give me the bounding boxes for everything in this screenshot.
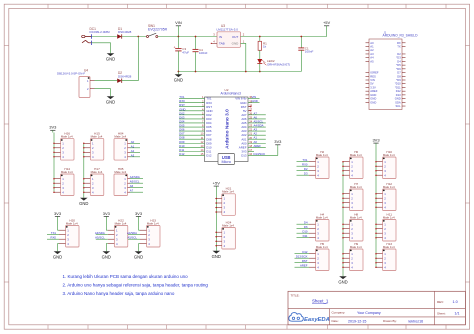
wire U2 left pin 14 (179, 150, 205, 152)
header H16 (54, 131, 74, 160)
power flag 3V3 at H22 (103, 211, 111, 230)
junction H16 pin (53, 156, 55, 158)
svg-text:Company:: Company: (332, 311, 346, 315)
svg-text:A6: A6 (130, 184, 134, 188)
junction U3 gnd (245, 71, 247, 73)
junction H21 pin (216, 198, 218, 200)
svg-text:D13: D13 (396, 93, 401, 97)
svg-text:A1: A1 (131, 144, 135, 148)
svg-text:Male 1x4: Male 1x4 (115, 221, 127, 225)
header H05 (114, 167, 130, 196)
wire U2 pin 18 (248, 146, 266, 148)
svg-text:Male 1x4: Male 1x4 (61, 135, 73, 139)
svg-text:100nF: 100nF (199, 51, 208, 55)
svg-text:GND: GND (102, 254, 111, 259)
svg-text:AREF: AREF (300, 264, 308, 268)
junction H11 pin (375, 232, 377, 234)
svg-text:Male 1x4: Male 1x4 (316, 153, 328, 157)
svg-text:Male 1x4: Male 1x4 (114, 135, 126, 139)
wire A4/SDA to H23 pin2 (128, 234, 140, 236)
junction H12 pin (375, 202, 377, 204)
header H21 (215, 187, 235, 216)
wire D13/SCK to H5 pin 2 (295, 257, 310, 259)
diode D2 (117, 79, 122, 83)
svg-text:Male 1x4: Male 1x4 (383, 245, 395, 249)
junction H12 pin (375, 193, 377, 195)
wire U2 left pin 15 (179, 154, 205, 156)
wire ground rail (178, 71, 301, 73)
wire H05 pin 4 (130, 191, 143, 193)
svg-text:Male 1x4: Male 1x4 (91, 170, 103, 174)
svg-text:A1: A1 (370, 45, 374, 49)
wire U2 left pin 3 (179, 106, 205, 108)
svg-text:A3: A3 (370, 52, 374, 56)
header H11 (376, 212, 396, 241)
svg-text:ORH-R36A(S-ET): ORH-R36A(S-ET) (267, 63, 290, 67)
svg-text:RX: RX (397, 41, 401, 45)
svg-text:D13/SCK: D13/SCK (296, 255, 308, 259)
junction H24 pin (216, 245, 218, 247)
power flag 3V3 at H20 (54, 211, 62, 230)
junction H7 pin (342, 202, 344, 204)
svg-text:IOREF: IOREF (370, 71, 379, 75)
wire U4 to D2 (95, 80, 118, 82)
junction H14 pin (53, 178, 55, 180)
svg-text:3V3: 3V3 (135, 211, 143, 216)
svg-text:A0: A0 (370, 41, 374, 45)
svg-text:Arduino Nano 3.0: Arduino Nano 3.0 (225, 109, 231, 149)
junction H9 pin (342, 266, 344, 268)
junction H16 pin (53, 152, 55, 154)
svg-text:IN: IN (219, 35, 222, 39)
power flag +5V at H21 (213, 181, 221, 199)
svg-text:100nF: 100nF (305, 50, 314, 54)
svg-text:*D11: *D11 (395, 85, 401, 89)
junction H15 pin (83, 156, 85, 158)
wire U2 pin 25 (248, 118, 266, 120)
junction H10 pin (375, 174, 377, 176)
header H8 (343, 212, 363, 241)
svg-text:2019-12-15: 2019-12-15 (348, 320, 366, 324)
svg-text:D3: D3 (304, 172, 308, 176)
junction H13 pin (375, 253, 377, 255)
wire D12 to H5 pin 1 (295, 253, 310, 255)
svg-text:Male 1x4: Male 1x4 (66, 221, 78, 225)
svg-text:D8: D8 (397, 74, 401, 78)
wire D3 to H2 pin 4 (297, 174, 310, 176)
svg-text:3V3: 3V3 (372, 138, 380, 143)
svg-text:Male 1x4: Male 1x4 (316, 245, 328, 249)
diode D1 (117, 34, 122, 38)
junction H9 pin (342, 262, 344, 264)
wire +5V to R1 (259, 37, 261, 42)
svg-text:D13: D13 (241, 154, 247, 158)
svg-text:D2: D2 (397, 52, 401, 56)
junction H16 pin (53, 147, 55, 149)
power flag 3V3 left group (49, 125, 57, 133)
svg-text:A2: A2 (370, 48, 374, 52)
svg-text:Male 1x4: Male 1x4 (350, 215, 362, 219)
svg-text:D7: D7 (397, 71, 401, 75)
svg-text:3V3: 3V3 (103, 211, 111, 216)
junction H10 pin (375, 165, 377, 167)
svg-text:lektroz16: lektroz16 (409, 320, 424, 324)
wire U2 left pin 10 (179, 134, 205, 136)
header H4 (309, 212, 329, 241)
svg-text:Micro: Micro (221, 159, 231, 164)
svg-text:3V3: 3V3 (54, 211, 62, 216)
junction H24 pin (216, 240, 218, 242)
svg-text:1/1: 1/1 (455, 312, 460, 316)
mcu module U2 Arduino Nano 3.0 (201, 95, 253, 161)
junction H15 pin (83, 143, 85, 145)
header H04 (114, 131, 130, 160)
ground at DC1 (106, 51, 115, 62)
svg-text:Male 1x4: Male 1x4 (383, 215, 395, 219)
junction H7 pin (342, 206, 344, 208)
wire U2 pin 26 (248, 114, 266, 116)
capacitor C3 (174, 37, 182, 72)
wire U2 left pin 7 (179, 122, 205, 124)
junction H11 pin (375, 228, 377, 230)
svg-text:A4: A4 (370, 56, 374, 60)
junction H24 pin (216, 236, 218, 238)
svg-text:Male 1x4: Male 1x4 (383, 185, 395, 189)
svg-text:GND: GND (370, 100, 376, 104)
wire U2 left pin 11 (179, 138, 205, 140)
wire RX0 to H2 pin 2 (297, 165, 310, 167)
svg-text:Sheet:: Sheet: (437, 312, 446, 316)
wire U2 left pin 6 (179, 118, 205, 120)
wire D4 to H4 pin 1 (297, 223, 310, 225)
junction H15 pin (83, 152, 85, 154)
svg-text:Male 1x4: Male 1x4 (222, 190, 234, 194)
frame row tick marks (4, 46, 469, 283)
wire U2 left pin 4 (179, 110, 205, 112)
svg-text:DSK4R28: DSK4R28 (118, 74, 132, 78)
svg-text:A4/SDA: A4/SDA (127, 231, 137, 235)
wire 3V3 to H20 pin1 (58, 229, 60, 231)
ground at H20 (53, 249, 62, 260)
svg-text:D11: D11 (303, 234, 308, 238)
header H22 (108, 218, 128, 247)
wire U2 pin 22 (248, 130, 266, 132)
svg-text:Male 1x4: Male 1x4 (114, 170, 126, 174)
svg-text:GND: GND (232, 42, 240, 46)
header H10 (376, 150, 396, 179)
wire U2 pin 30 VIN (248, 98, 260, 100)
wire H05 pin 1 (130, 178, 143, 180)
junction H6 pin (342, 170, 344, 172)
svg-text:D12: D12 (179, 152, 185, 156)
svg-text:*D9: *D9 (396, 78, 401, 82)
junction H24 pin (216, 231, 218, 233)
junction VIN tap (178, 36, 180, 38)
header H14 (54, 167, 74, 196)
ground at H22 (102, 249, 111, 260)
wire R1 to LED2 (259, 50, 261, 59)
junction H17 pin (83, 187, 85, 189)
junction LED2 gnd (259, 71, 261, 73)
svg-text:D10: D10 (302, 230, 308, 234)
svg-text:GND: GND (212, 254, 221, 259)
svg-text:Your Company: Your Company (357, 311, 381, 315)
junction H9 pin (342, 257, 344, 259)
svg-text:A5/SCL: A5/SCL (127, 236, 137, 240)
svg-text:A5: A5 (370, 59, 374, 63)
junction H12 pin (375, 197, 377, 199)
node A junction (137, 36, 139, 38)
wire U2 pin 27 5V stub (248, 110, 251, 112)
svg-text:VIN: VIN (370, 78, 375, 82)
svg-text:*D6: *D6 (396, 67, 401, 71)
junction H17 pin (83, 178, 85, 180)
svg-text:GND: GND (134, 254, 143, 259)
svg-text:Male 1x4: Male 1x4 (316, 215, 328, 219)
junction H6 pin (342, 174, 344, 176)
svg-text:GND: GND (395, 97, 401, 101)
power flag VIN (175, 20, 182, 36)
junction H13 pin (375, 262, 377, 264)
svg-text:SCL: SCL (395, 104, 401, 108)
wire 3V3 to H23 pin1 (139, 229, 141, 231)
junction H6 pin (342, 161, 344, 163)
junction H7 pin (342, 193, 344, 195)
wire U2 pin 28 RST stub (248, 106, 251, 108)
junction R1 tap (259, 36, 261, 38)
junction H14 pin (53, 191, 55, 193)
svg-text:A5/SCL: A5/SCL (95, 236, 105, 240)
wire H23 pin4 to gnd (139, 244, 141, 249)
svg-text:Male 1x4: Male 1x4 (350, 185, 362, 189)
wire U3 GND pin down (241, 43, 246, 71)
wire U2 pin 19 (248, 142, 266, 144)
wire jack to D1 (92, 36, 117, 38)
wire U2 left pin 2 (179, 102, 205, 104)
svg-text:AREF: AREF (254, 144, 262, 148)
svg-text:47uF: 47uF (182, 50, 189, 54)
wire U2 pin 23 (248, 126, 266, 128)
svg-text:TX1: TX1 (302, 158, 308, 162)
svg-text:OUT: OUT (232, 35, 239, 39)
capacitor C1 (298, 36, 304, 72)
junction H6 pin (342, 165, 344, 167)
svg-text:GND: GND (106, 56, 115, 61)
header H17 (84, 167, 104, 196)
LED LED2 (257, 59, 266, 65)
wire TX1 to H2 pin 1 (297, 161, 310, 163)
svg-text:3.3V: 3.3V (370, 85, 376, 89)
wire U2 left pin 13 (179, 146, 205, 148)
power flag 3V3 at U2 (274, 139, 282, 146)
header H23 (140, 218, 160, 247)
terminal block U4 (79, 77, 95, 98)
wire 3V3 column left (53, 133, 55, 192)
wire H04 pin 3 (130, 151, 140, 153)
junction H13 pin (375, 266, 377, 268)
header H20 (59, 218, 79, 247)
wire U2 left pin 1 (179, 98, 205, 100)
svg-text:D2: D2 (304, 167, 308, 171)
svg-text:A2: A2 (131, 149, 135, 153)
svg-text:D4: D4 (304, 221, 308, 225)
svg-text:EasyEDA: EasyEDA (304, 317, 330, 323)
wire D6 to H4 pin 2 (297, 228, 310, 230)
svg-text:Date:: Date: (332, 319, 339, 323)
wire U2 pin 24 (248, 122, 266, 124)
svg-text:Male 1x4: Male 1x4 (350, 245, 362, 249)
svg-text:A4/SDA: A4/SDA (130, 175, 140, 179)
junction H10 pin (375, 170, 377, 172)
svg-text:GND: GND (338, 279, 347, 284)
junction H14 pin (53, 187, 55, 189)
wire LED2 to gnd rail (259, 64, 261, 72)
junction H15 pin (83, 147, 85, 149)
junction H17 pin (83, 182, 85, 184)
svg-text:Sheet_1: Sheet_1 (312, 299, 329, 304)
wire D10 to H4 pin 3 (297, 232, 310, 234)
wire H05 pin 3 (130, 187, 143, 189)
svg-text:D13/SCK: D13/SCK (254, 152, 266, 156)
svg-text:3V3: 3V3 (274, 139, 282, 144)
header H5 (309, 242, 329, 271)
svg-text:RX0: RX0 (302, 163, 308, 167)
header H13 (376, 242, 396, 271)
svg-text:LM1117TSA-5.0: LM1117TSA-5.0 (217, 28, 239, 32)
svg-text:Drawn By:: Drawn By: (383, 319, 397, 323)
svg-text:1k: 1k (263, 45, 267, 49)
svg-text:Male 1x4: Male 1x4 (147, 221, 159, 225)
svg-text:SDA: SDA (395, 100, 401, 104)
title block (288, 291, 465, 325)
svg-text:A5/SCL: A5/SCL (130, 180, 140, 184)
svg-text:GND: GND (370, 97, 376, 101)
svg-text:*D5: *D5 (396, 63, 401, 67)
junction H12 pin (375, 206, 377, 208)
capacitor C4 (193, 36, 199, 72)
switch SW1 (147, 33, 158, 37)
wire U2 left pin 5 (179, 114, 205, 116)
svg-text:Male 1x4: Male 1x4 (61, 170, 73, 174)
ground of H15/H17 column (79, 195, 88, 206)
svg-text:GND: GND (370, 93, 376, 97)
header H24 (215, 220, 235, 249)
svg-text:DB126V-5.0-5P-GN-F: DB126V-5.0-5P-GN-F (57, 72, 85, 76)
wire D2 to node A (122, 80, 139, 82)
ground at U4 (106, 94, 115, 105)
junction H8 pin (342, 228, 344, 230)
junction C3 gnd (178, 71, 180, 73)
wire node A vertical (137, 37, 139, 81)
svg-text:Male 1x4: Male 1x4 (222, 223, 234, 227)
wire RX0 to H20 pin3 (47, 238, 59, 240)
wire U2 3V3 pin (248, 150, 254, 152)
svg-text:AREF: AREF (370, 89, 378, 93)
wire A5/SCL to H22 pin3 (96, 238, 108, 240)
EasyEDA logo (289, 313, 330, 323)
junction H21 pin (216, 207, 218, 209)
svg-text:REV:: REV: (437, 300, 444, 304)
power flag 3V3 right column (372, 138, 380, 162)
svg-text:GND: GND (79, 201, 88, 206)
header H2 (309, 150, 329, 179)
svg-text:DSK4R28: DSK4R28 (118, 30, 132, 34)
svg-text:Male 1x4: Male 1x4 (350, 153, 362, 157)
svg-text:2. Arduino uno hanya sebagai r: 2. Arduino uno hanya sebagai referensi s… (63, 283, 209, 288)
junction H14 pin (53, 182, 55, 184)
power flag 3V3 at H23 (135, 211, 143, 230)
svg-text:GND: GND (252, 99, 258, 103)
svg-text:3V3: 3V3 (49, 125, 57, 130)
svg-text:+5V: +5V (323, 20, 331, 25)
junction H21 pin (216, 211, 218, 213)
wire U4 pin2 to gnd (95, 89, 111, 94)
svg-text:TAB: TAB (219, 42, 225, 46)
wire H04 pin 2 (130, 147, 140, 149)
wire D1 to node A (122, 36, 147, 38)
wire 3V3 riser (277, 146, 279, 155)
wire U2 pin 21 (248, 134, 266, 136)
junction H7 pin (342, 197, 344, 199)
svg-text:D12: D12 (396, 89, 401, 93)
wire gnd column right group (342, 162, 344, 274)
svg-text:1.0: 1.0 (453, 300, 458, 304)
svg-text:ArduinoNano3: ArduinoNano3 (221, 92, 242, 96)
svg-text:RX0: RX0 (51, 236, 57, 240)
svg-text:Male 1x4: Male 1x4 (383, 153, 395, 157)
svg-text:VIN: VIN (175, 20, 182, 25)
wire U2 left pin 8 (179, 126, 205, 128)
junction H8 pin (342, 232, 344, 234)
wire RST to H5 pin 3 (295, 262, 310, 264)
junction H11 pin (375, 223, 377, 225)
connector J1 ARDUINO_R3_SHIELD (366, 39, 406, 110)
svg-text:5V: 5V (370, 82, 373, 86)
svg-text:D4: D4 (397, 59, 401, 63)
header H7 (343, 182, 363, 211)
junction H21 pin (216, 202, 218, 204)
svg-text:A3: A3 (131, 153, 135, 157)
svg-text:ARDUINO_R3_SHIELD: ARDUINO_R3_SHIELD (383, 34, 419, 38)
svg-text:GND: GND (53, 254, 62, 259)
header H9 (343, 242, 363, 271)
svg-text:RES: RES (370, 74, 376, 78)
svg-text:GND: GND (174, 77, 183, 82)
junction C4 gnd (195, 71, 197, 73)
junction H10 pin (375, 161, 377, 163)
svg-text:EVQ22705R: EVQ22705R (148, 27, 168, 31)
junction H11 pin (375, 237, 377, 239)
junction H17 pin (83, 191, 85, 193)
svg-text:GND: GND (106, 99, 115, 104)
svg-text:TITLE:: TITLE: (291, 293, 300, 297)
junction H8 pin (342, 223, 344, 225)
svg-text:*D3: *D3 (396, 56, 401, 60)
svg-text:A0: A0 (131, 140, 135, 144)
junction H16 pin (53, 143, 55, 145)
header H15 (84, 131, 104, 160)
svg-text:Male 1x4: Male 1x4 (91, 135, 103, 139)
wire 3v3 column right group (375, 162, 377, 268)
wire H05 pin 2 (130, 182, 143, 184)
svg-text:RST: RST (302, 259, 308, 263)
junction H13 pin (375, 257, 377, 259)
dc barrel jack DC1 (82, 34, 92, 45)
wire U2 left pin 9 (179, 130, 205, 132)
ground at H23 (134, 249, 143, 260)
power flag +5V (323, 20, 331, 36)
svg-text:3. Arduino Nano hanya header s: 3. Arduino Nano hanya header saja, tanpa… (63, 291, 175, 296)
